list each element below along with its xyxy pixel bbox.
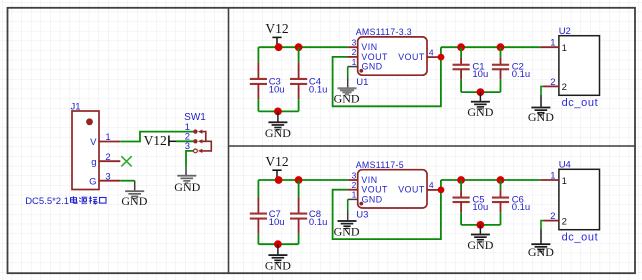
wire V12 input rail (AMS1117-3.3) xyxy=(258,46,348,48)
U3 pin 4 VOUT xyxy=(427,189,439,191)
capacitor C2 xyxy=(492,47,509,92)
svg-text:GND: GND xyxy=(467,105,493,119)
U3 pin 1 GND xyxy=(348,198,358,200)
svg-text:1: 1 xyxy=(352,190,357,200)
junction output gnd (AMS1117-3.3) xyxy=(477,88,485,96)
connector U2 (AMS1117-3.3 output) xyxy=(559,36,600,96)
svg-text:0.1u: 0.1u xyxy=(512,202,531,213)
net label V12 (AMS1117-5 section) xyxy=(265,154,288,180)
capacitor C4 xyxy=(290,47,307,111)
capacitor C5 xyxy=(453,180,470,225)
svg-text:1: 1 xyxy=(562,43,567,54)
svg-text:GND: GND xyxy=(467,238,493,252)
svg-text:3: 3 xyxy=(105,171,110,182)
regulator U3 (AMS1117-5) xyxy=(358,170,427,208)
wire U2 pin2 to GND xyxy=(541,86,544,95)
switch SW1 xyxy=(193,129,211,153)
ground GND (output caps AMS1117-3.3) xyxy=(467,92,493,119)
junction V12 stub (AMS1117-3.3) xyxy=(275,43,283,51)
U4 pin 1 xyxy=(540,179,559,181)
svg-text:10u: 10u xyxy=(472,202,488,213)
svg-text:VOUT: VOUT xyxy=(398,52,425,62)
svg-text:U3: U3 xyxy=(356,210,368,221)
U1 pin 2 VOUT xyxy=(347,56,357,58)
U3 pin 3 VIN xyxy=(348,179,357,181)
svg-text:AMS1117-3.3: AMS1117-3.3 xyxy=(356,27,412,37)
svg-text:U1: U1 xyxy=(356,77,368,88)
junction output cap 2 (AMS1117-3.3) xyxy=(497,43,505,51)
svg-text:2: 2 xyxy=(352,47,357,57)
svg-text:1: 1 xyxy=(550,38,555,49)
svg-text:1: 1 xyxy=(352,57,357,67)
wire VOUT loop U1 xyxy=(333,47,441,106)
J1 value label DC5.5*2.1 power jack xyxy=(25,196,106,207)
svg-text:1: 1 xyxy=(562,176,567,187)
wire V12 input rail (AMS1117-5) xyxy=(258,179,348,181)
wire U3 pin1 to GND xyxy=(347,199,349,210)
wire U1 pin1 to GND xyxy=(347,67,349,78)
J1 pin 2 (g) xyxy=(99,160,120,162)
svg-text:U4: U4 xyxy=(559,159,571,170)
wire J1 pin3 to GND xyxy=(120,180,134,182)
svg-text:dc_out: dc_out xyxy=(562,97,599,109)
svg-text:2: 2 xyxy=(550,211,555,222)
U1 pin 1 GND xyxy=(348,66,358,68)
svg-text:V12: V12 xyxy=(265,154,288,169)
svg-text:10u: 10u xyxy=(472,69,488,80)
svg-text:V12: V12 xyxy=(144,133,167,148)
svg-text:VOUT: VOUT xyxy=(361,52,388,62)
ground GND (U3) xyxy=(334,210,360,238)
ground GND (U4) xyxy=(528,229,554,259)
wire VOUT loop U3 xyxy=(333,180,441,239)
capacitor C7 xyxy=(250,180,267,244)
capacitor C3 xyxy=(250,47,267,111)
junction output gnd (AMS1117-5) xyxy=(477,221,485,229)
wire output caps bottom rail (AMS1117-3.3) xyxy=(461,91,500,93)
U4 pin 2 xyxy=(544,220,559,222)
capacitor C8 xyxy=(290,180,307,244)
svg-text:J1: J1 xyxy=(71,102,81,113)
svg-text:GND: GND xyxy=(334,92,360,106)
svg-text:GND: GND xyxy=(121,194,147,208)
svg-text:10u: 10u xyxy=(269,217,285,228)
wire J1 pin1 to SW1 pin1 xyxy=(120,132,193,142)
capacitor C6 xyxy=(492,180,509,225)
svg-text:2: 2 xyxy=(562,82,567,93)
ground GND (SW1) xyxy=(174,167,200,194)
connector J1 xyxy=(72,111,99,190)
U1 pin 1 dot xyxy=(359,69,363,73)
ground GND (U2) xyxy=(528,95,554,124)
svg-text:GND: GND xyxy=(528,245,554,259)
wire input caps bottom rail (AMS1117-5) xyxy=(258,243,298,245)
svg-text:G: G xyxy=(89,176,96,187)
svg-text:GND: GND xyxy=(362,194,383,204)
U2 pin 2 xyxy=(544,85,559,87)
svg-text:2: 2 xyxy=(105,152,110,163)
U2 pin 1 xyxy=(540,46,559,48)
junction input cap 2 (AMS1117-5) xyxy=(295,176,303,184)
svg-text:DC5.5*2.1: DC5.5*2.1 xyxy=(25,196,69,207)
U3 pin 2 VOUT xyxy=(347,189,357,191)
svg-text:VIN: VIN xyxy=(361,42,377,52)
junction at U3 pin 4 xyxy=(438,187,445,194)
wire output caps bottom rail (AMS1117-5) xyxy=(461,224,500,226)
ground GND (output caps AMS1117-5) xyxy=(467,225,493,252)
junction at U1 pin 4 xyxy=(438,54,445,61)
ground GND (J1) xyxy=(121,181,147,208)
net label V12 (left) xyxy=(144,133,177,148)
wire U4 pin2 to GND xyxy=(541,221,544,230)
svg-text:4: 4 xyxy=(429,47,434,57)
svg-text:0.1u: 0.1u xyxy=(309,84,328,95)
svg-text:0.1u: 0.1u xyxy=(512,69,531,80)
svg-text:GND: GND xyxy=(174,180,200,194)
svg-text:GND: GND xyxy=(334,224,360,238)
wire SW1 pin3 to GND xyxy=(186,151,193,167)
svg-text:GND: GND xyxy=(362,62,383,72)
svg-text:1: 1 xyxy=(550,171,555,182)
U1 pin 3 VIN xyxy=(348,46,357,48)
regulator U1 (AMS1117-3.3) xyxy=(358,37,427,75)
junction output cap 2 (AMS1117-5) xyxy=(497,176,505,184)
wire input caps bottom rail (AMS1117-3.3) xyxy=(258,110,298,112)
junction V12 stub (AMS1117-5) xyxy=(275,176,283,184)
svg-text:V: V xyxy=(90,137,97,148)
svg-text:U2: U2 xyxy=(559,26,571,37)
svg-text:3: 3 xyxy=(352,38,357,48)
svg-text:g: g xyxy=(91,157,96,168)
svg-text:2: 2 xyxy=(562,216,567,227)
junction output cap 1 (AMS1117-3.3) xyxy=(457,43,465,51)
svg-text:2: 2 xyxy=(352,180,357,190)
svg-text:0.1u: 0.1u xyxy=(309,217,328,228)
junction input gnd (AMS1117-3.3) xyxy=(274,108,282,116)
svg-text:4: 4 xyxy=(429,180,434,190)
connector U4 (AMS1117-5 output) xyxy=(559,169,600,229)
net label V12 (AMS1117-3.3 section) xyxy=(265,21,288,47)
wire output rail (AMS1117-5) xyxy=(441,179,541,181)
junction input cap 2 (AMS1117-3.3) xyxy=(295,43,303,51)
wire output rail (AMS1117-3.3) xyxy=(441,46,541,48)
junction input gnd (AMS1117-5) xyxy=(274,240,282,248)
no-connect X on J1 pin 2 xyxy=(121,156,131,166)
ground GND (input caps AMS1117-5) xyxy=(265,244,291,272)
svg-text:VOUT: VOUT xyxy=(398,185,425,195)
svg-text:dc_out: dc_out xyxy=(562,231,599,243)
wire V12 to SW1 pin2 xyxy=(176,140,193,142)
J1 pin 3 (G) xyxy=(99,180,120,182)
svg-text:GND: GND xyxy=(265,126,291,140)
svg-text:3: 3 xyxy=(352,170,357,180)
svg-text:VOUT: VOUT xyxy=(361,185,388,195)
ground GND (U1) xyxy=(334,77,360,105)
capacitor C1 xyxy=(453,47,470,92)
svg-text:VIN: VIN xyxy=(361,175,377,185)
J1 pin 1 (V) xyxy=(99,141,120,143)
svg-text:AMS1117-5: AMS1117-5 xyxy=(356,160,404,170)
svg-text:2: 2 xyxy=(550,77,555,88)
svg-text:GND: GND xyxy=(528,110,554,124)
svg-text:1: 1 xyxy=(105,132,110,143)
U3 pin 1 dot xyxy=(359,202,363,206)
junction output cap 1 (AMS1117-5) xyxy=(457,176,465,184)
U1 pin 4 VOUT xyxy=(427,56,439,58)
svg-text:GND: GND xyxy=(265,259,291,273)
svg-text:V12: V12 xyxy=(265,21,288,36)
ground GND (input caps AMS1117-3.3) xyxy=(265,111,291,139)
svg-text:10u: 10u xyxy=(269,84,285,95)
